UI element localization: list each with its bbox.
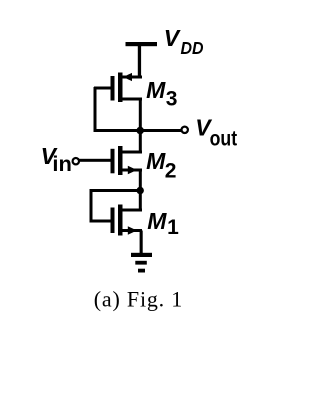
wire Vin lead to M2 gate — [79, 159, 111, 162]
wire M3 gate wrap bottom to node Vout — [94, 129, 141, 132]
wire M2 source down to node A — [139, 170, 142, 191]
svg-text:1: 1 — [167, 216, 179, 239]
transistor M1 (diode-connected NMOS) — [111, 205, 143, 236]
wire M3 drain down to node Vout — [139, 99, 142, 131]
label M1 — [147, 208, 179, 239]
svg-text:DD: DD — [181, 38, 204, 58]
label Vin — [41, 143, 72, 176]
wire M1 source down to ground — [140, 231, 143, 254]
power rail VDD symbol — [126, 42, 158, 46]
terminal Vin open circle — [73, 158, 79, 164]
label Vout — [195, 114, 237, 150]
svg-text:M: M — [147, 208, 167, 234]
svg-text:V: V — [164, 25, 181, 51]
label M2 — [146, 148, 176, 183]
svg-text:2: 2 — [165, 160, 177, 183]
node A junction (M2 source / M1 drain) — [137, 187, 144, 194]
svg-text:out: out — [210, 128, 238, 151]
wire M1 gate wrap bottom to gate — [90, 220, 111, 223]
wire node Vout down to M2 drain — [139, 131, 142, 154]
svg-text:M: M — [146, 77, 166, 103]
wire node to Vout terminal — [140, 129, 182, 132]
svg-text:in: in — [52, 153, 72, 176]
transistor M3 (diode-connected PMOS) — [111, 73, 143, 103]
transistor M2 (NMOS) — [111, 146, 143, 175]
ground — [131, 253, 152, 273]
svg-text:(a) Fig. 1: (a) Fig. 1 — [94, 287, 183, 312]
label VDD — [164, 25, 204, 58]
wire M1 gate wrap top from node A — [90, 189, 141, 192]
terminal Vout open circle — [182, 127, 188, 133]
wire VDD stem to M3 source — [138, 45, 141, 79]
wire M3 gate lead — [94, 87, 111, 90]
wire node A down to M1 drain — [139, 191, 142, 212]
svg-text:M: M — [146, 148, 166, 174]
label M3 — [146, 77, 177, 111]
wire M3 gate wrap left — [94, 87, 97, 132]
svg-text:3: 3 — [166, 87, 178, 110]
wire M1 gate wrap left — [90, 189, 93, 223]
node Vout junction — [136, 127, 144, 135]
